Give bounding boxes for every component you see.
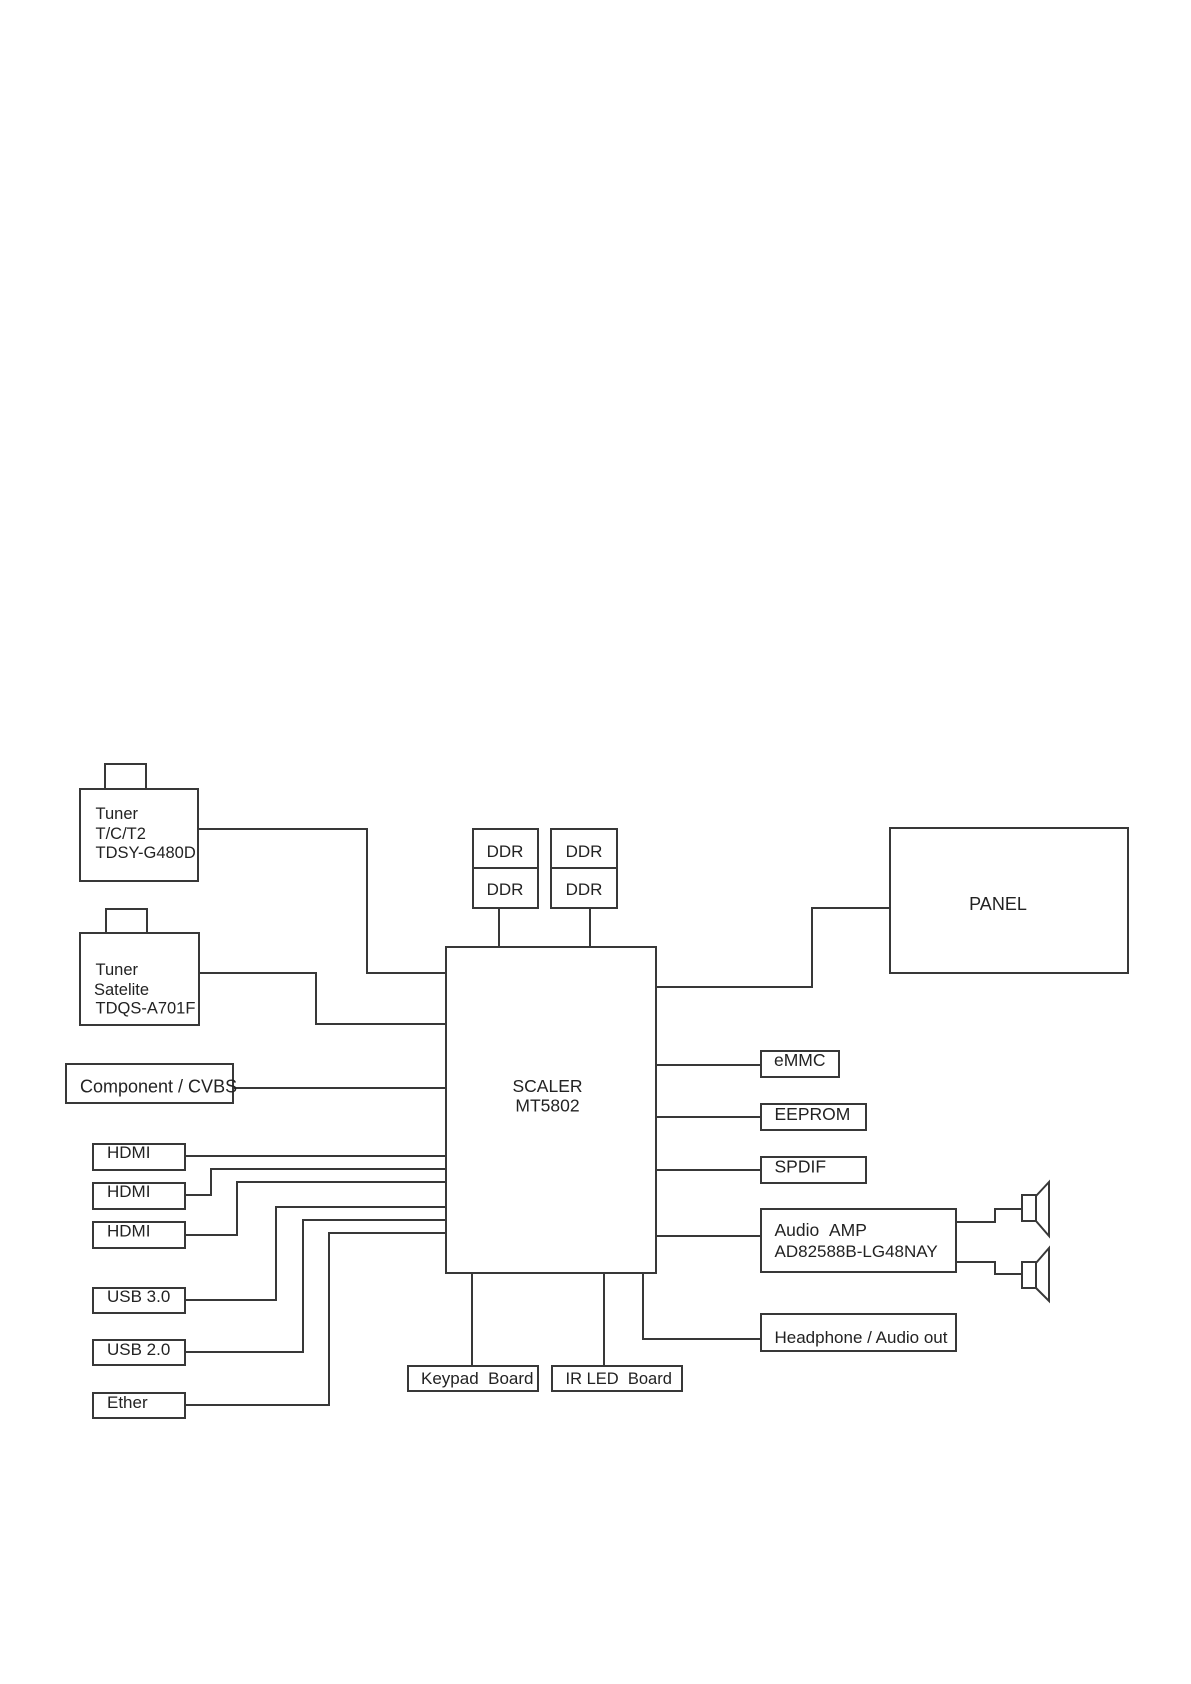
svg-text:Audio AMP: Audio AMP <box>775 1220 867 1240</box>
svg-text:HDMI: HDMI <box>107 1143 150 1162</box>
svg-text:IR LED Board: IR LED Board <box>566 1370 672 1388</box>
svg-text:eMMC: eMMC <box>774 1050 826 1070</box>
svg-text:DDR: DDR <box>566 842 603 861</box>
svg-text:HDMI: HDMI <box>107 1222 150 1241</box>
svg-text:Headphone / Audio out: Headphone / Audio out <box>775 1328 948 1347</box>
svg-text:USB 2.0: USB 2.0 <box>107 1340 170 1359</box>
svg-text:DDR: DDR <box>487 842 524 861</box>
svg-text:Tuner: Tuner <box>96 961 139 979</box>
svg-text:AD82588B-LG48NAY: AD82588B-LG48NAY <box>775 1242 938 1261</box>
svg-text:USB 3.0: USB 3.0 <box>107 1287 170 1306</box>
svg-text:Tuner: Tuner <box>96 805 139 823</box>
svg-text:EEPROM: EEPROM <box>775 1104 851 1124</box>
svg-text:Keypad Board: Keypad Board <box>421 1369 533 1388</box>
svg-text:TDQS-A701F: TDQS-A701F <box>96 1000 196 1018</box>
svg-text:MT5802: MT5802 <box>515 1096 579 1116</box>
svg-text:TDSY-G480D: TDSY-G480D <box>96 844 196 862</box>
svg-text:DDR: DDR <box>566 880 603 899</box>
svg-text:T/C/T2: T/C/T2 <box>96 825 146 843</box>
svg-text:SPDIF: SPDIF <box>775 1157 827 1177</box>
svg-text:Ether: Ether <box>107 1393 148 1412</box>
svg-text:Satelite: Satelite <box>94 981 149 999</box>
svg-text:DDR: DDR <box>487 880 524 899</box>
svg-text:HDMI: HDMI <box>107 1182 150 1201</box>
svg-text:Component / CVBS: Component / CVBS <box>80 1077 237 1097</box>
svg-text:SCALER: SCALER <box>512 1076 582 1096</box>
svg-text:PANEL: PANEL <box>969 894 1027 914</box>
